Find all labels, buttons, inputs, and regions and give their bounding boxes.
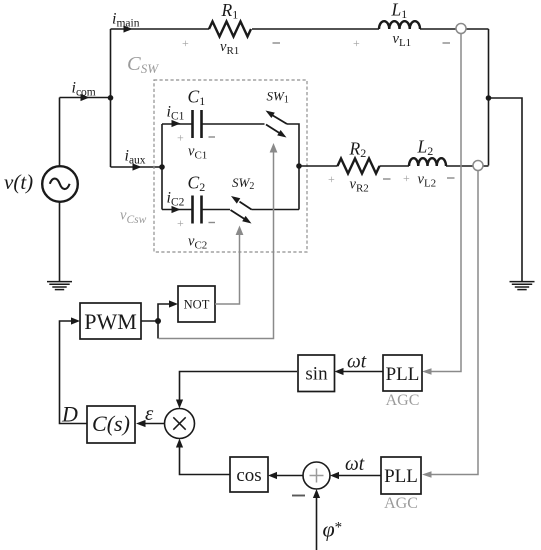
arrow iC2 bbox=[172, 206, 181, 213]
ground left bbox=[47, 282, 72, 290]
wire to R2 bbox=[299, 165, 338, 167]
wire PLL2 to summer bbox=[335, 475, 381, 477]
wire source bottom bbox=[59, 202, 61, 282]
svg-text:AGC: AGC bbox=[384, 495, 418, 512]
switch SW1 bbox=[266, 111, 288, 138]
svg-text:v(t): v(t) bbox=[4, 170, 33, 194]
capacitor C1 bbox=[193, 110, 202, 138]
dashed box CSW bbox=[154, 80, 307, 252]
arrow into PLL2 (gray) bbox=[422, 471, 432, 477]
arrow into multiplier bottom bbox=[176, 439, 183, 448]
polarity - vL1 bbox=[443, 42, 451, 44]
arrow into cos bbox=[268, 472, 277, 479]
wire summer to cos bbox=[273, 475, 303, 477]
svg-text:+: + bbox=[353, 36, 360, 50]
node PWM output junction bbox=[155, 318, 161, 324]
arrow i_main bbox=[124, 25, 133, 32]
polarity - vC2 bbox=[209, 222, 216, 224]
svg-text:C(s): C(s) bbox=[92, 411, 130, 436]
polarity - vR2 bbox=[383, 178, 391, 180]
node iaux junction bbox=[159, 164, 165, 170]
arrow to SW1 (gray) bbox=[270, 143, 278, 153]
summer circle bbox=[303, 462, 330, 489]
wire left vertical (imain node down to iaux) bbox=[110, 29, 112, 167]
arrow icom bbox=[81, 94, 90, 101]
svg-text:+: + bbox=[177, 131, 184, 145]
svg-text:PLL: PLL bbox=[384, 466, 418, 487]
block C(s) bbox=[87, 406, 135, 443]
wire top rail left segment bbox=[111, 28, 210, 30]
wire C1 lead bbox=[162, 123, 192, 125]
sense tap circle top bbox=[456, 24, 466, 34]
block PWM bbox=[80, 303, 141, 339]
wire junction to NOT bbox=[158, 304, 172, 321]
svg-text:PWM: PWM bbox=[84, 309, 137, 334]
arrow into C(s) bbox=[136, 420, 146, 427]
control wire PWM to SW1 (gray) bbox=[159, 149, 274, 339]
arrow into NOT bbox=[169, 300, 178, 307]
wire SW1 to right vertical bbox=[287, 124, 299, 210]
wire iaux horizontal bbox=[111, 166, 163, 168]
node icom junction bbox=[108, 95, 114, 101]
svg-text:AGC: AGC bbox=[386, 392, 420, 409]
wire icom horizontal bbox=[60, 97, 111, 99]
sense wire 1 bbox=[428, 34, 461, 372]
wire SW2 to right vertical bbox=[252, 209, 300, 211]
arrow iaux bbox=[133, 163, 142, 170]
arrow iC1 bbox=[172, 120, 181, 127]
capacitor C2 bbox=[193, 196, 202, 224]
svg-text:+: + bbox=[403, 171, 410, 185]
svg-text:sin: sin bbox=[305, 364, 328, 385]
block cos bbox=[230, 457, 268, 492]
svg-text:ε: ε bbox=[145, 401, 154, 425]
wire cos to multiplier bbox=[180, 444, 231, 475]
resistor R2 bbox=[338, 159, 380, 174]
ground right bbox=[510, 282, 535, 290]
control wire NOT to SW2 (gray) bbox=[215, 231, 240, 304]
svg-text:cos: cos bbox=[236, 465, 261, 486]
node junction right rail bbox=[486, 95, 492, 101]
wire sin to multiplier bbox=[180, 372, 298, 404]
polarity - vC1 bbox=[209, 136, 216, 138]
wire source top bbox=[59, 98, 61, 167]
arrow into sin bbox=[335, 368, 344, 375]
svg-text:+: + bbox=[182, 36, 189, 50]
wire C1 to SW1 bbox=[202, 123, 265, 125]
polarity - vR1 bbox=[273, 42, 281, 44]
wire PWM junction down bbox=[157, 321, 159, 339]
wire between R1 and L1 bbox=[252, 28, 379, 30]
node R2 junction bbox=[296, 163, 302, 169]
svg-text:ωt: ωt bbox=[347, 352, 367, 373]
svg-text:D: D bbox=[61, 402, 78, 427]
wire cap left vertical bbox=[161, 124, 163, 210]
arrow phi star bbox=[313, 489, 320, 498]
inductor L2 bbox=[409, 158, 446, 166]
wire C2 to SW2 bbox=[202, 209, 231, 211]
svg-text:+: + bbox=[328, 172, 335, 186]
svg-text:NOT: NOT bbox=[184, 298, 210, 312]
source v(t) bbox=[42, 166, 78, 202]
wire PLL1 to sin bbox=[340, 371, 383, 373]
wire R2 to L2 bbox=[380, 165, 410, 167]
label minus bbox=[292, 495, 305, 497]
wire multiplier to C(s) bbox=[141, 423, 165, 425]
wire right vertical down bbox=[488, 29, 490, 166]
wire L2 to corner bbox=[446, 165, 489, 167]
svg-text:+: + bbox=[177, 216, 184, 230]
wire PWM output bbox=[141, 320, 158, 322]
block PLL2 bbox=[381, 457, 421, 494]
arrow into summer bbox=[330, 472, 339, 479]
resistor R1 bbox=[209, 22, 251, 37]
svg-text:ωt: ωt bbox=[345, 454, 365, 475]
wire branch to right ground bbox=[489, 98, 523, 282]
switch SW2 bbox=[231, 196, 252, 224]
wire phi star input bbox=[316, 494, 318, 550]
arrow to SW2 (gray) bbox=[236, 226, 244, 236]
wire top rail right segment bbox=[420, 28, 489, 30]
block NOT bbox=[178, 286, 215, 322]
wire C2 lead bbox=[162, 209, 192, 211]
polarity - vL2 bbox=[447, 177, 455, 179]
arrow into PWM bbox=[71, 317, 80, 324]
inductor L1 bbox=[379, 21, 420, 29]
sense tap circle 2 bbox=[473, 161, 483, 171]
block sin bbox=[298, 355, 335, 392]
block PLL1 bbox=[383, 355, 422, 391]
arrow into PLL1 (gray) bbox=[422, 368, 432, 374]
arrow into multiplier top bbox=[176, 400, 183, 409]
multiplier circle bbox=[165, 409, 195, 439]
wire D feedback bbox=[60, 321, 88, 424]
svg-text:PLL: PLL bbox=[386, 364, 420, 385]
sense wire 2 bbox=[428, 171, 478, 475]
